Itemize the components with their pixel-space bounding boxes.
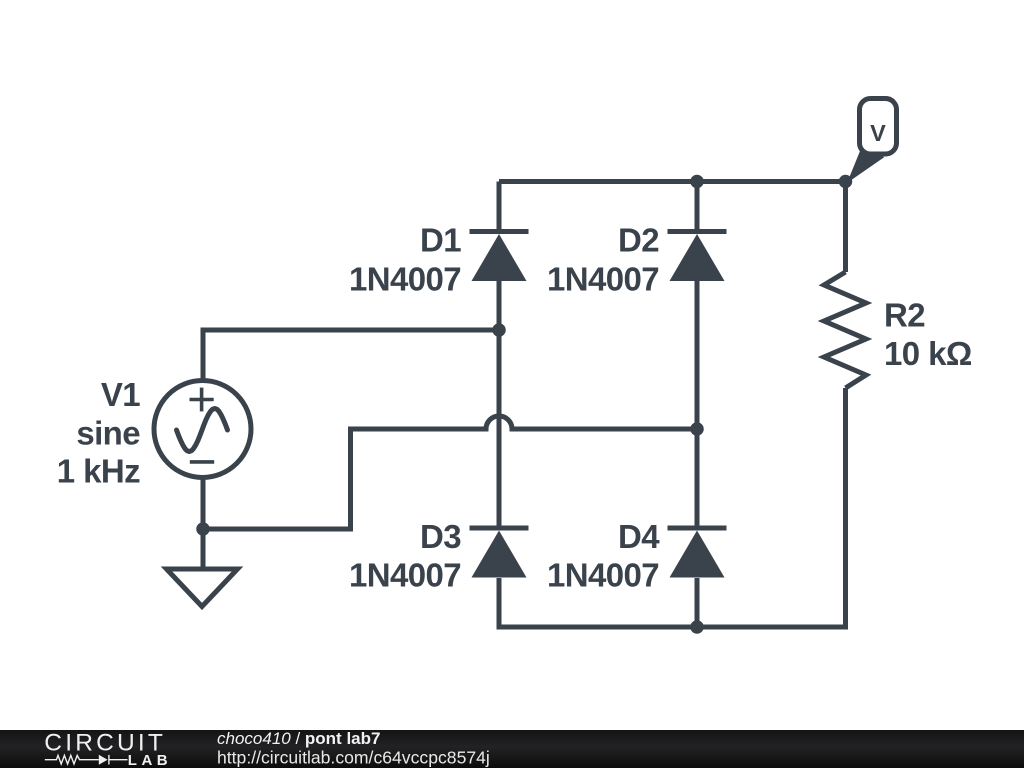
wire node B down to ground [201,529,206,569]
svg-text:R2: R2 [884,296,925,333]
wire D2 bottom to D4 top (right bridge branch) [695,281,700,528]
footer bar [0,730,1024,768]
label R2 10 kOhm [884,296,972,372]
svg-text:http://circuitlab.com/c64vccpc: http://circuitlab.com/c64vccpc8574j [217,748,490,768]
junction dot top rail / probe [839,175,853,189]
junction dot mid rail / D2-D4 branch [690,422,704,436]
wire top rail from D1 top to probe node [499,179,846,184]
svg-text:D2: D2 [618,222,659,259]
V1 minus symbol [190,460,214,464]
svg-text:D3: D3 [420,518,461,555]
wire D2 top lead [695,182,700,232]
svg-text:sine: sine [76,414,140,451]
voltage source V1 circle [154,381,251,478]
svg-text:1N4007: 1N4007 [349,557,461,594]
svg-text:V: V [870,120,886,146]
wire probe node down to R2 top [843,182,848,273]
wire D1 bottom to D3 top (left bridge branch) [497,281,502,528]
CircuitLab logo resistor-diode glyph [45,755,128,765]
V1 plus symbol [190,388,214,412]
diode D1 [470,232,529,282]
node A junction dot (left branch / V1+) [492,323,506,337]
wire V1 minus terminal down to node B [201,478,206,529]
label D4 1N4007 [547,518,660,594]
svg-text:10 kΩ: 10 kΩ [884,335,972,372]
resistor R2 zigzag [824,272,866,388]
svg-text:1N4007: 1N4007 [547,557,659,594]
diode D2 [668,232,727,282]
wire R2 bottom lead down and bottom rail to D3 branch [499,388,846,627]
junction dot top rail / D2 branch [690,175,704,189]
junction dot bottom rail / D4 [690,620,704,634]
svg-text:1N4007: 1N4007 [349,261,461,298]
label V1 sine 1 kHz [57,376,140,490]
svg-text:D1: D1 [420,222,461,259]
svg-text:choco410 / pont lab7: choco410 / pont lab7 [217,729,380,748]
svg-text:LAB: LAB [128,752,172,768]
wire node B right, up, and across with hop over left branch to D2-D4 branch [203,416,697,529]
svg-text:D4: D4 [618,518,660,555]
svg-text:1 kHz: 1 kHz [57,453,140,490]
wire D1 top lead [497,182,502,232]
label D2 1N4007 [547,222,659,298]
node B junction dot (V1- / ground) [196,522,210,536]
V1 sine symbol [177,409,228,452]
label D3 1N4007 [349,518,461,594]
ground [167,569,238,607]
svg-text:1N4007: 1N4007 [547,261,659,298]
label D1 1N4007 [349,222,461,298]
diode D4 [668,528,727,578]
voltmeter probe V [847,99,897,184]
diode D3 [470,528,529,578]
wire D4 bottom lead to bottom rail [695,578,700,627]
wire V1 plus terminal up and right to node A [203,330,499,380]
svg-text:V1: V1 [101,376,140,413]
